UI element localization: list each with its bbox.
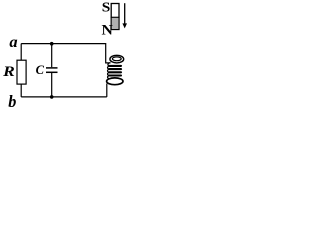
wire top rail from node a to top-right corner — [21, 43, 106, 45]
inductor coil turns — [108, 63, 122, 79]
wire bottom rail from node b to coil bottom corner — [21, 96, 107, 98]
bar magnet pole divider — [111, 16, 120, 18]
capacitor C bottom plate — [46, 71, 58, 73]
bar magnet N half shading — [112, 18, 118, 29]
capacitor C top plate — [46, 67, 58, 69]
wire right drop to coil top lead — [106, 43, 111, 63]
arrow head — [122, 23, 127, 28]
node junction dot top (capacitor tap) — [50, 42, 54, 46]
inductor coil top opening outer ellipse — [110, 55, 124, 63]
resistor R (box body) — [17, 60, 26, 84]
svg-text:R: R — [2, 62, 15, 80]
wire capacitor lower lead — [51, 73, 53, 97]
arrow magnet motion downward (shaft) — [124, 3, 126, 24]
bar magnet body — [111, 4, 119, 30]
wire capacitor upper lead — [51, 44, 53, 68]
wire coil bottom lead down to bottom rail — [106, 84, 108, 97]
svg-text:S: S — [102, 0, 111, 15]
svg-text:a: a — [9, 34, 17, 51]
wire left branch from node a down to node b — [20, 44, 22, 97]
inductor coil bottom ring — [107, 78, 123, 85]
svg-text:C: C — [36, 63, 45, 77]
svg-text:N: N — [102, 23, 114, 38]
node junction dot bottom (capacitor tap) — [50, 95, 54, 99]
inductor coil top opening inner ellipse — [112, 57, 121, 61]
svg-text:b: b — [8, 92, 16, 111]
